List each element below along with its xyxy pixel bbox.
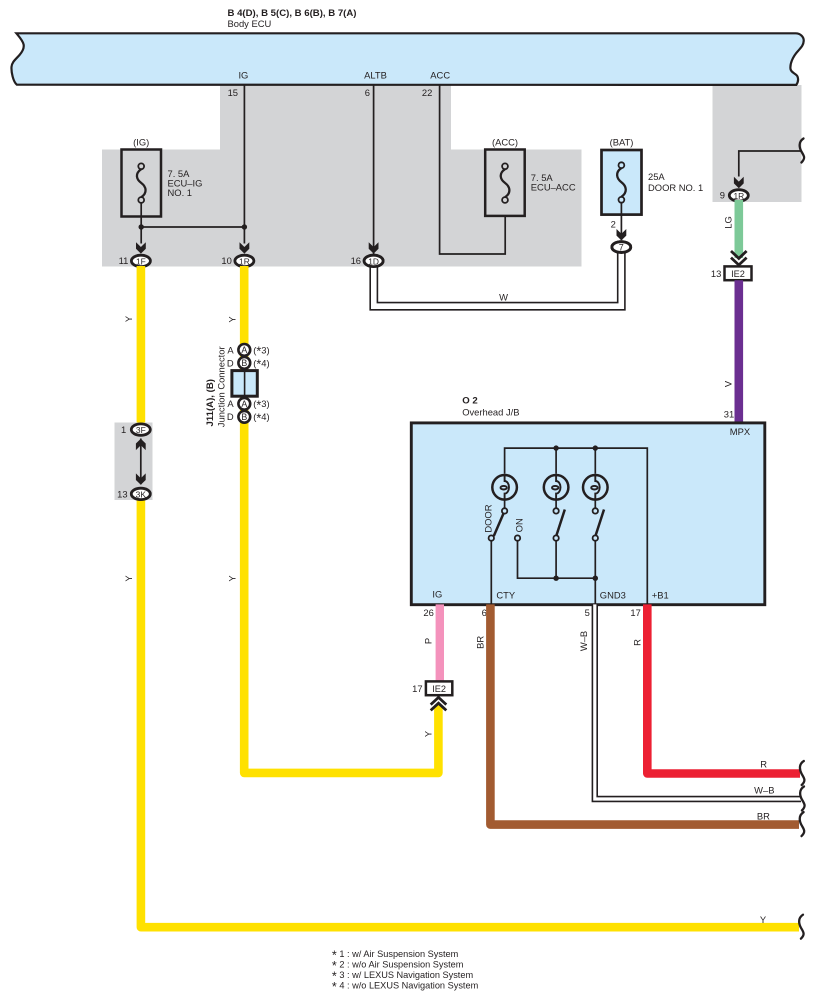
yellow wire left from 1F down xyxy=(141,266,799,927)
svg-text:(ACC): (ACC) xyxy=(492,136,518,147)
J11 pin circle A bottom xyxy=(238,398,250,410)
svg-text:A: A xyxy=(227,344,234,355)
svg-text:Y: Y xyxy=(760,914,767,925)
wire ACC pin22 down and over to fuse xyxy=(440,85,506,254)
svg-text:GND3: GND3 xyxy=(600,589,626,600)
fuse ECU-ACC element xyxy=(501,169,510,197)
svg-text:7: 7 xyxy=(619,243,624,253)
svg-text:J11(A), (B): J11(A), (B) xyxy=(205,379,216,426)
svg-text:IG: IG xyxy=(432,589,442,600)
J11 pin circle B bottom xyxy=(238,411,250,423)
wire P pink xyxy=(436,604,444,681)
connector IE2 left xyxy=(426,681,452,695)
white wire W from 1D to 7 xyxy=(374,249,622,306)
svg-text:W–B: W–B xyxy=(754,784,774,795)
svg-text:ACC: ACC xyxy=(430,69,450,80)
arrow into 1R xyxy=(240,242,250,253)
svg-text:17: 17 xyxy=(630,607,640,618)
DOOR switch xyxy=(489,508,508,604)
fuse ECU-ACC body xyxy=(485,150,525,216)
ON contact xyxy=(515,535,596,578)
tear mark red wire xyxy=(800,761,804,785)
svg-text:B: B xyxy=(241,358,247,368)
internal bus top xyxy=(505,448,648,604)
connector IE2 right xyxy=(725,266,752,280)
svg-text:A: A xyxy=(241,399,247,409)
lamp2 feed xyxy=(555,448,557,474)
svg-text:3F: 3F xyxy=(136,425,146,435)
svg-text:R: R xyxy=(631,639,642,646)
svg-text:1D: 1D xyxy=(368,256,379,266)
svg-text:Junction Connector: Junction Connector xyxy=(216,346,227,427)
svg-text:(*4): (*4) xyxy=(253,411,269,425)
svg-text:Y: Y xyxy=(423,730,434,737)
svg-text:BR: BR xyxy=(474,636,485,649)
wire fuse IG to junction xyxy=(140,203,142,244)
svg-text:* 4 : w/o LEXUS Navigation Sys: * 4 : w/o LEXUS Navigation System xyxy=(332,980,479,994)
svg-text:D: D xyxy=(227,411,234,422)
svg-text:DOOR NO. 1: DOOR NO. 1 xyxy=(648,182,703,193)
wire V purple xyxy=(734,280,743,422)
grey shade connector 3F-3K xyxy=(115,423,153,501)
svg-text:(IG): (IG) xyxy=(133,136,149,147)
svg-text:22: 22 xyxy=(422,87,432,98)
lamp L1 xyxy=(492,475,517,500)
wire IG pin15 down xyxy=(243,85,245,244)
wire fuse BAT to circle 7 xyxy=(620,203,622,241)
svg-text:D: D xyxy=(227,357,234,368)
svg-text:Y: Y xyxy=(226,316,237,323)
wire LG green xyxy=(734,200,743,258)
svg-text:O 2: O 2 xyxy=(462,396,477,407)
svg-text:A: A xyxy=(227,398,234,409)
svg-text:Body ECU: Body ECU xyxy=(228,18,272,29)
svg-text:15: 15 xyxy=(228,87,238,98)
Overhead J/B box xyxy=(411,423,765,605)
grey shade redrawn for 3F-3K xyxy=(115,423,153,501)
wire from torn edge to 1R right xyxy=(739,151,801,177)
svg-text:16: 16 xyxy=(351,255,361,266)
svg-text:3K: 3K xyxy=(136,489,147,499)
J11 body xyxy=(232,371,257,397)
svg-text:CTY: CTY xyxy=(496,589,515,600)
Body ECU band xyxy=(11,33,803,85)
svg-text:BR: BR xyxy=(757,810,770,821)
svg-text:5: 5 xyxy=(585,607,590,618)
svg-text:1F: 1F xyxy=(136,256,146,266)
lamp3 feed xyxy=(594,448,596,474)
fuse DOOR NO.1 body xyxy=(602,150,642,215)
chevron arrows into IE2 xyxy=(731,251,747,258)
svg-text:13: 13 xyxy=(711,268,721,279)
connector circle 7 xyxy=(612,242,631,253)
connector oval 3F xyxy=(131,424,150,435)
connector oval 3K xyxy=(131,488,150,499)
svg-text:Y: Y xyxy=(123,575,134,582)
fuse ECU-IG element xyxy=(137,169,146,197)
svg-text:A: A xyxy=(241,345,247,355)
fuse DOOR NO.1 element xyxy=(617,168,626,197)
switch S2 xyxy=(553,508,564,581)
redraw ovals above white wire xyxy=(364,255,383,266)
svg-text:10: 10 xyxy=(221,255,231,266)
svg-text:ON: ON xyxy=(513,518,524,532)
svg-text:11: 11 xyxy=(119,255,129,266)
arrow into 1D xyxy=(369,242,379,253)
svg-text:IE2: IE2 xyxy=(432,684,446,694)
svg-text:W: W xyxy=(499,291,508,302)
svg-text:Y: Y xyxy=(123,315,134,322)
junction node dot xyxy=(139,224,144,229)
svg-text:1R: 1R xyxy=(239,256,250,266)
svg-text:Y: Y xyxy=(226,575,237,582)
svg-text:V: V xyxy=(723,380,734,387)
fuse ECU-IG body xyxy=(122,150,162,217)
svg-text:LG: LG xyxy=(723,216,734,229)
lamp leads to switches xyxy=(504,500,506,508)
switch S3 xyxy=(593,508,604,604)
wire ALTB pin6 down xyxy=(373,85,375,255)
svg-text:W–B: W–B xyxy=(578,631,589,651)
svg-text:R: R xyxy=(760,758,767,769)
svg-text:6: 6 xyxy=(365,87,370,98)
arrow into 1R right xyxy=(734,177,744,188)
wire W-B double line xyxy=(595,604,801,799)
svg-text:2: 2 xyxy=(611,219,616,230)
svg-text:(BAT): (BAT) xyxy=(610,136,634,147)
svg-text:6: 6 xyxy=(482,607,487,618)
svg-text:13: 13 xyxy=(117,488,127,499)
svg-text:1R: 1R xyxy=(733,191,744,201)
svg-text:B: B xyxy=(241,412,247,422)
tear mark yellow wire xyxy=(799,915,803,939)
svg-text:17: 17 xyxy=(412,683,422,694)
grey harness shade right xyxy=(713,85,802,202)
svg-text:1: 1 xyxy=(121,424,126,435)
svg-text:ECU–ACC: ECU–ACC xyxy=(531,182,576,193)
svg-text:+B1: +B1 xyxy=(652,589,669,600)
svg-text:31: 31 xyxy=(724,409,734,420)
tear mark brown wire xyxy=(800,812,804,836)
connector oval 1F xyxy=(131,255,150,266)
J11 pin circle B top xyxy=(238,357,250,369)
tear mark W-B wire xyxy=(800,787,804,811)
wire BR brown xyxy=(490,604,799,824)
grey harness shade main xyxy=(102,85,582,267)
yellow wire from 1R via J11 to IE2 left xyxy=(244,266,438,773)
double arrow between 3F and 3K xyxy=(140,439,142,485)
svg-text:26: 26 xyxy=(423,607,433,618)
svg-text:DOOR: DOOR xyxy=(482,504,493,532)
connector oval 1R xyxy=(235,255,254,266)
wire R red xyxy=(647,604,800,773)
svg-text:NO. 1: NO. 1 xyxy=(168,187,193,198)
svg-text:Overhead J/B: Overhead J/B xyxy=(462,406,519,417)
svg-text:MPX: MPX xyxy=(730,426,751,437)
svg-text:IG: IG xyxy=(238,69,248,80)
J11 pin circle A top xyxy=(238,344,250,356)
svg-text:ALTB: ALTB xyxy=(364,69,387,80)
lamp L2 xyxy=(544,475,569,500)
arrow into 1F xyxy=(136,242,146,253)
chevron arrows out of IE2 left xyxy=(431,697,447,704)
svg-text:9: 9 xyxy=(720,190,725,201)
svg-text:25A: 25A xyxy=(648,171,665,182)
wire junction to 1R drop xyxy=(141,226,244,228)
svg-text:IE2: IE2 xyxy=(731,269,745,279)
lamp L3 xyxy=(583,475,608,500)
tear mark right wire xyxy=(800,139,804,163)
svg-text:P: P xyxy=(422,638,433,644)
connector oval 1D xyxy=(364,255,383,266)
connector oval 1R right xyxy=(729,190,748,201)
arrow into circle 7 xyxy=(617,229,627,240)
